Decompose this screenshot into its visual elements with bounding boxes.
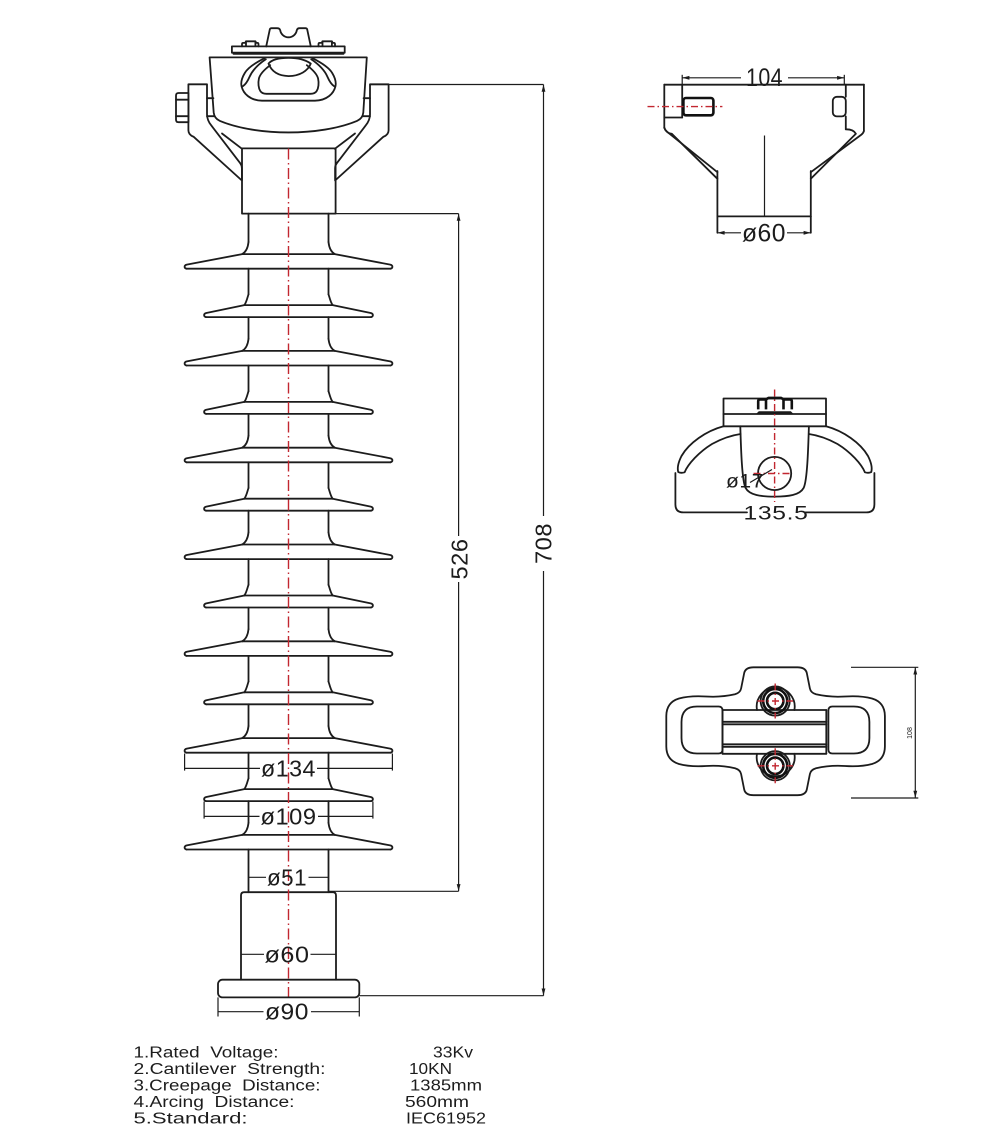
base end fitting block (241, 892, 336, 980)
conductor cross-section (269, 58, 311, 76)
horn inner right (311, 59, 334, 86)
svg-text:1385mm: 1385mm (410, 1078, 482, 1095)
saddle bolt left (242, 41, 259, 46)
trunnion bolt left (176, 93, 188, 122)
figB centerline vertical (774, 390, 776, 503)
dimension Ø60 (241, 953, 264, 955)
weather shed 6 (small) (244, 488, 248, 499)
svg-text:104: 104 (746, 64, 783, 92)
figA dimension Ø60 (717, 232, 741, 234)
svg-text:560mm: 560mm (405, 1094, 469, 1111)
svg-text:ø51: ø51 (267, 864, 307, 890)
svg-text:135.5: 135.5 (744, 504, 809, 525)
figB trunnion (740, 426, 809, 496)
weather shed 5 (large) (242, 436, 248, 448)
figB horn left (678, 426, 741, 473)
top saddle keeper (266, 28, 311, 46)
figA clamp body outline (664, 84, 864, 86)
figB horn right (809, 426, 872, 473)
svg-text:ø90: ø90 (265, 999, 309, 1025)
base flange (218, 980, 359, 998)
FRP core shaft (248, 214, 250, 242)
dimension 708 (370, 84, 543, 86)
figC bottom bolt (761, 751, 790, 780)
weather shed 4 (small) (244, 391, 248, 402)
figB washer (bold) (756, 411, 794, 414)
figC top bolt (761, 686, 790, 715)
figA right slot (833, 97, 846, 117)
svg-text:ø60: ø60 (265, 941, 310, 967)
boss tick lines left (207, 97, 213, 99)
svg-text:526: 526 (447, 539, 473, 580)
dimension Ø109 (203, 802, 205, 819)
svg-text:2.Cantilever Strength:: 2.Cantilever Strength: (134, 1061, 326, 1078)
dimension Ø51 (249, 876, 267, 878)
svg-text:ø134: ø134 (261, 755, 316, 781)
svg-text:708: 708 (531, 523, 557, 564)
horn inner left (243, 59, 266, 86)
funnel edge right (335, 134, 355, 149)
figC top bolt boss (757, 688, 795, 710)
figC height dimension (851, 666, 918, 668)
figC right handle hole (828, 707, 869, 754)
figB hole Ø17 (758, 457, 791, 490)
svg-text:10KN: 10KN (409, 1061, 452, 1078)
weather shed 3 (large) (242, 339, 248, 351)
centerline (main) (288, 149, 290, 997)
boss tick lines right (364, 97, 370, 99)
svg-text:ø109: ø109 (261, 803, 317, 829)
figA bolt centerline (648, 106, 723, 108)
figB crosshair horizontal (754, 473, 792, 475)
weather shed 9 (large) (242, 629, 248, 641)
weather shed 2 (small) (244, 294, 248, 305)
end-fitting block (242, 148, 336, 213)
svg-text:33Kv: 33Kv (433, 1045, 473, 1062)
conductor groove opening (outer) (241, 58, 335, 100)
figC bottom bolt crosshair (758, 765, 794, 767)
figA wing left (664, 128, 717, 172)
figC bottom bolt boss (757, 754, 795, 776)
weather shed 11 (large) (242, 726, 248, 738)
weather shed 10 (small) (244, 682, 248, 693)
dimension Ø134 (184, 754, 186, 771)
svg-text:108: 108 (907, 727, 914, 739)
svg-text:5.Standard:: 5.Standard: (134, 1110, 248, 1127)
figC outline (666, 667, 885, 795)
svg-text:ø60: ø60 (742, 220, 786, 248)
figB base body (675, 473, 874, 512)
saddle bolt right (319, 41, 336, 46)
svg-text:ø17: ø17 (726, 472, 764, 493)
figA dimension 104 (681, 75, 683, 85)
figC channel (722, 710, 724, 754)
weather shed 8 (small) (244, 585, 248, 596)
figB leader Ø17 (750, 470, 772, 483)
dimension 526 (336, 213, 459, 215)
conductor groove opening (inner) (258, 65, 318, 94)
figA left plate edge (681, 85, 683, 118)
weather shed 1 (large) (242, 242, 248, 254)
svg-text:4.Arcing Distance:: 4.Arcing Distance: (134, 1094, 295, 1111)
figA right inner edge (845, 85, 847, 97)
figC top bolt crosshair (758, 700, 794, 702)
figB cap (724, 399, 827, 427)
figA central column (716, 171, 718, 216)
figB hex nut (bold) (758, 398, 792, 410)
figA wing right (811, 131, 864, 172)
svg-text:IEC61952: IEC61952 (406, 1110, 486, 1127)
svg-text:1.Rated Voltage:: 1.Rated Voltage: (134, 1045, 279, 1062)
clamp cleat body (210, 57, 367, 132)
weather shed 13 (large) (242, 823, 248, 835)
figC left handle hole (682, 707, 723, 754)
svg-text:3.Creepage Distance:: 3.Creepage Distance: (134, 1078, 321, 1095)
funnel edge left (222, 134, 242, 149)
figA column centerline (764, 136, 766, 217)
dimension Ø90 (217, 997, 219, 1016)
yoke strap left (188, 84, 242, 180)
yoke strap right (335, 84, 389, 180)
clamp top plate (232, 46, 345, 52)
figA eye bolt (bold) (683, 98, 713, 115)
weather shed 12 (small) (244, 778, 248, 789)
weather shed 7 (large) (242, 532, 248, 544)
